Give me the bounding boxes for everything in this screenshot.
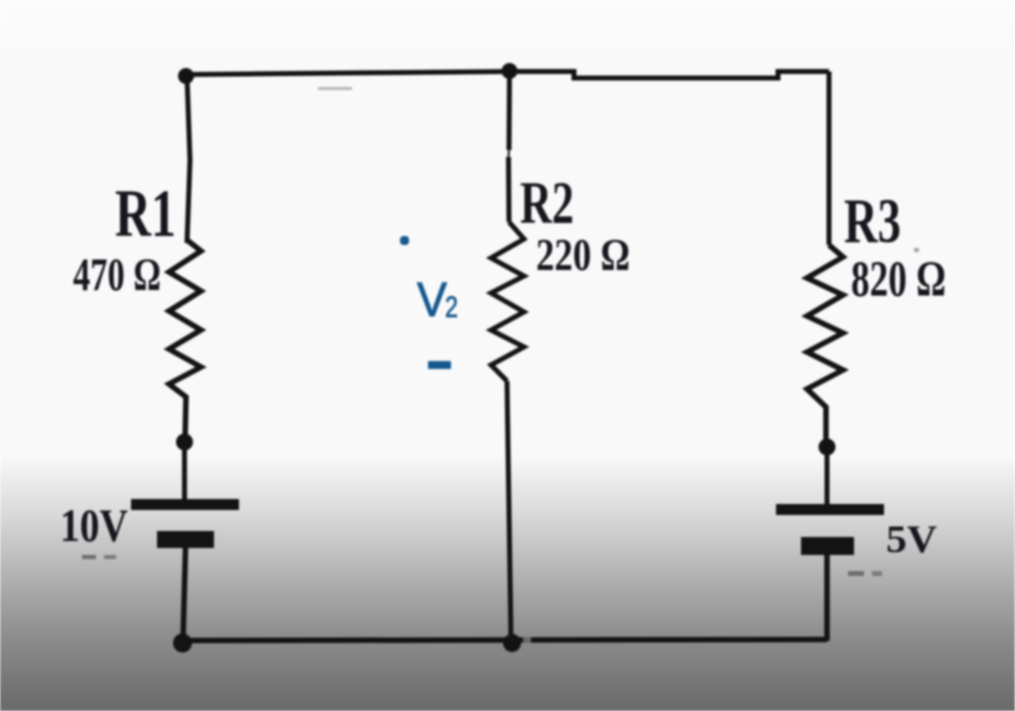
svg-text:10V: 10V	[60, 500, 128, 552]
svg-text:220 Ω: 220 Ω	[536, 230, 630, 280]
svg-text:V: V	[417, 274, 447, 327]
svg-text:R3: R3	[844, 185, 901, 256]
svg-text:470 Ω: 470 Ω	[73, 249, 161, 301]
svg-text:R2: R2	[520, 170, 574, 236]
svg-text:2: 2	[445, 291, 458, 324]
svg-text:R1: R1	[115, 175, 176, 251]
svg-text:820 Ω: 820 Ω	[851, 252, 946, 308]
svg-text:5V: 5V	[886, 518, 937, 561]
